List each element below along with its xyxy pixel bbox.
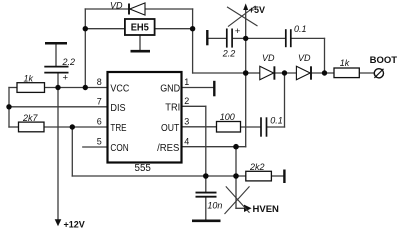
svg-text:2.2: 2.2 [222,48,236,58]
pin numbers right [184,77,189,146]
wire 10n top stem [205,176,207,192]
node between diodes [282,70,287,75]
wire DIS row [9,106,108,108]
wire EH5 right [155,28,193,30]
wire HVEN probe vertical [235,176,237,208]
diode VD2 [296,53,311,79]
svg-text:/RES: /RES [157,143,179,154]
svg-text:8: 8 [97,77,102,87]
pin numbers left [97,77,102,146]
wire TRE row [44,126,108,128]
wire 1k left elbow [9,87,17,89]
wire dot4 down to rail [235,147,237,176]
node EH5 left [83,26,88,31]
wire top loop right vertical [192,9,194,73]
svg-text:7: 7 [97,96,102,106]
wire elbow down to diode row [324,38,326,73]
resistor 1k left [17,74,45,93]
svg-text:+12V: +12V [64,219,85,228]
svg-text:VCC: VCC [110,84,129,95]
wire TRI vertical down [205,106,207,176]
svg-text:0.1: 0.1 [294,24,307,34]
wire EH5 left [85,28,125,30]
svg-text:1k: 1k [340,58,350,68]
wire CON stub [83,146,108,148]
wire /RES row [182,146,246,148]
svg-text:0.1: 0.1 [270,115,283,125]
ground 10n [192,219,221,222]
wire cap2.2a top stem [55,44,57,66]
wire 10n bottom stem [205,197,207,220]
resistor 1k boot [334,58,359,78]
svg-text:VD: VD [262,53,275,63]
svg-text:GND: GND [160,84,180,95]
svg-text:4: 4 [184,136,189,146]
wire 2k7 left elbow [9,126,19,128]
svg-text:6: 6 [97,117,102,127]
svg-text:2k7: 2k7 [22,113,39,123]
svg-text:+: + [63,73,69,84]
wire left vertical 1k-2k7 [8,88,10,128]
wire 2k2 to bar [271,175,283,177]
svg-text:2k2: 2k2 [249,162,265,172]
svg-text:DIS: DIS [110,103,125,114]
svg-text:HVEN: HVEN [253,204,280,215]
wire EH5 ground stem [139,35,141,51]
svg-text:3: 3 [184,117,189,127]
svg-text:VD: VD [298,53,311,63]
capacitor 0.1 top [286,24,307,47]
node supply diode [243,70,249,76]
node TRE [70,124,75,129]
svg-text:555: 555 [135,163,152,174]
wire 100 to cap0.1b [241,126,261,128]
node DIS divider [6,104,11,109]
svg-text:10n: 10n [207,201,222,211]
supply +12V [55,219,85,229]
node diode out [322,70,327,75]
probe HVEN crossed arrow [225,186,280,215]
svg-text:2.2: 2.2 [62,57,76,67]
wire diode row seg2 [275,72,296,74]
wire node down between diodes to cap0.1b [284,73,286,127]
svg-text:CON: CON [110,143,128,154]
diode VD top [129,3,145,15]
capacitor 2.2 right [207,26,241,59]
capacitor 0.1 lower [261,115,283,136]
node VCC cap [55,85,60,90]
svg-text:TRE: TRE [110,123,126,134]
wire cap2.2b to node [233,37,246,39]
wire elbow to supply node [193,72,246,74]
ground EH5 [131,50,151,53]
svg-text:5: 5 [97,136,102,146]
svg-text:VD: VD [110,0,123,10]
svg-text:OUT: OUT [161,123,180,134]
EH5 box [125,19,155,35]
svg-text:+5V: +5V [249,5,265,15]
resistor 100 [217,112,241,132]
resistor 2k7 [19,113,45,132]
svg-text:BOOT: BOOT [370,55,398,66]
wire diode row seg3 [312,72,335,74]
svg-text:100: 100 [220,112,235,122]
node rail 10n [203,173,209,179]
svg-text:1k: 1k [24,74,34,84]
wire cap2.2a bottom stem and +12V feed [57,73,59,219]
node /RES [233,144,239,150]
node VCC loop [83,85,88,90]
node EH5 right [190,26,195,31]
IC 555 [108,72,182,174]
wire node to cap0.1a [246,37,285,39]
diode VD1 [260,53,275,79]
wire VCC row [45,87,108,89]
wire 1k boot to circle [359,72,374,74]
svg-text:1: 1 [184,77,189,87]
svg-text:TRI: TRI [165,102,180,113]
terminal BOOT [370,55,398,78]
terminal bar pin1 GND [213,81,215,97]
wire OUT to 100 [182,126,217,128]
wire cap2.2b row [208,37,226,39]
svg-text:+: + [235,26,241,37]
capacitor 2.2 left [44,43,75,83]
wire TRE vertical down to rail [71,127,73,176]
wire diode row seg1 [246,72,260,74]
svg-text:EH5: EH5 [131,22,150,33]
wire bottom rail [72,175,246,177]
svg-text:2: 2 [184,96,189,106]
wire cap0.1b right elbow [267,126,284,128]
wire HVEN probe horizontal [236,207,245,209]
resistor 2k2 [246,162,272,181]
wire +5V vertical down to /RES [245,10,247,147]
wire top loop left vertical [84,9,86,88]
node rail HVEN [233,173,239,179]
wire TRI pin elbow [182,105,206,107]
capacitor 10n [196,193,223,211]
wire cap0.1a to elbow [291,37,324,39]
+5V arrow crossed [227,3,265,26]
wire GND pin stub [182,87,214,89]
wire top loop horizontal [85,8,192,10]
node +5V cap [243,36,248,41]
terminal bar 2k2 [283,170,285,184]
